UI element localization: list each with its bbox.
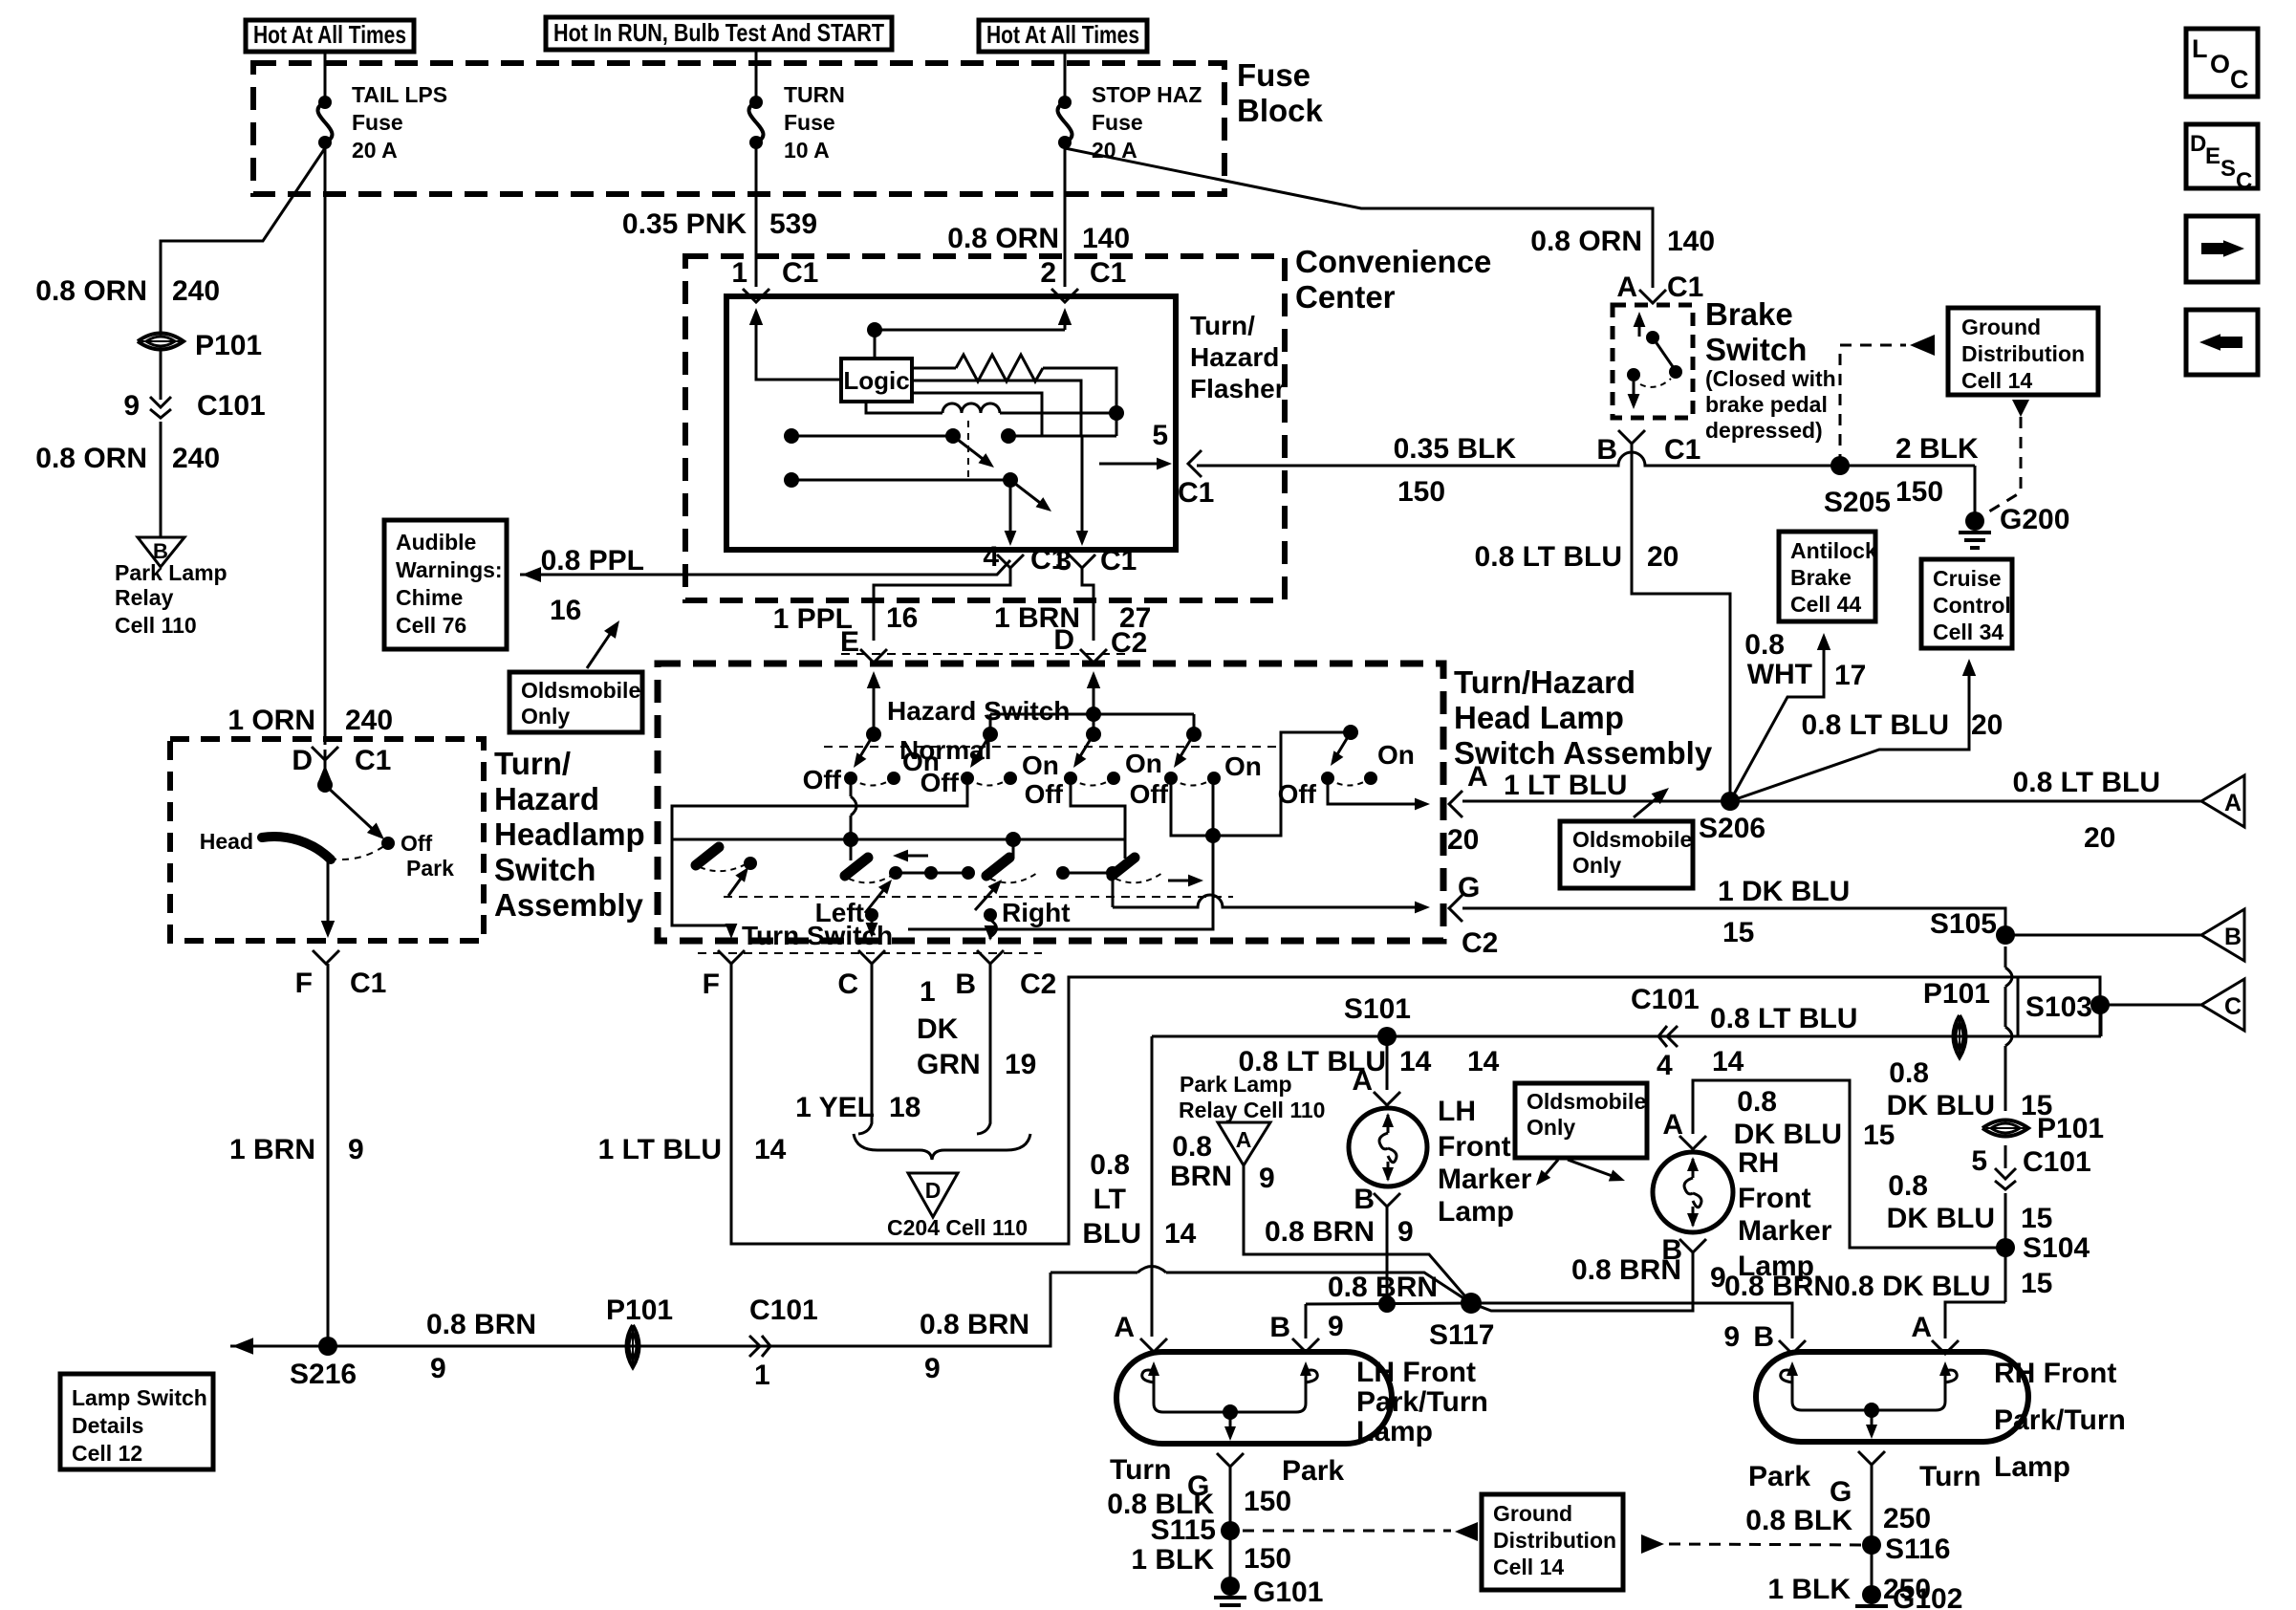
turn switch thin arrow F: [728, 872, 746, 896]
Turn/Hazard Head Lamp Switch Assembly dashed box: [658, 664, 1443, 941]
svg-text:Off: Off: [401, 831, 433, 856]
wire 0.8 BRN 9 LH marker B down: [1386, 1207, 1389, 1304]
wire into headlamp switch: [324, 750, 327, 785]
wire 0.8 BRN 9 relay to S117: [1244, 1165, 1471, 1303]
svg-text:19: 19: [1005, 1049, 1036, 1080]
svg-text:Turn: Turn: [1919, 1461, 1981, 1492]
svg-text:S: S: [2220, 156, 2236, 182]
svg-text:250: 250: [1883, 1503, 1931, 1534]
wire hazard pole3 Off drop: [1071, 778, 1125, 839]
svg-text:0.8 LT BLU: 0.8 LT BLU: [1802, 709, 1949, 741]
wire 0.8 LT BLU 20 brake switch to S206: [1632, 442, 1730, 801]
svg-text:S216: S216: [290, 1359, 357, 1390]
svg-text:Switch: Switch: [1705, 332, 1807, 367]
dashed reference wire S205 to Ground Distribution: [1840, 345, 1906, 466]
fuse TURN 10A: [755, 101, 757, 103]
connector C101 (right vertical): [1995, 1168, 2016, 1189]
splice S105: [1996, 925, 2015, 945]
svg-text:On: On: [1377, 740, 1415, 770]
svg-text:0.8 LT BLU: 0.8 LT BLU: [1710, 1003, 1857, 1034]
hazard pole 5 Off contact: [1321, 772, 1334, 785]
svg-text:18: 18: [889, 1092, 921, 1123]
svg-text:0.8: 0.8: [1744, 629, 1785, 661]
svg-text:0.8: 0.8: [1172, 1131, 1212, 1163]
svg-text:D: D: [1053, 624, 1074, 656]
svg-text:A: A: [1236, 1127, 1252, 1152]
svg-text:S117: S117: [1429, 1319, 1494, 1351]
svg-text:Switch: Switch: [494, 852, 596, 887]
pin G chevron (switch output): [1449, 895, 1462, 922]
pin D chevron (hazard): [1080, 649, 1107, 663]
hazard pole 3 dashed arc: [1071, 778, 1114, 786]
svg-text:Center: Center: [1295, 279, 1396, 315]
wire Logic bottom to inductor: [866, 402, 942, 413]
svg-text:14: 14: [1399, 1046, 1432, 1077]
svg-text:Lamp: Lamp: [1994, 1451, 2070, 1483]
svg-text:WHT: WHT: [1747, 659, 1812, 690]
svg-text:Chime: Chime: [396, 585, 463, 610]
svg-text:C1: C1: [355, 745, 391, 776]
svg-text:Control: Control: [1933, 593, 2011, 618]
splice S101: [1377, 1027, 1397, 1046]
RH park/turn ground lead: [1871, 1410, 1874, 1429]
turn flag3 dashed arc: [1116, 873, 1162, 882]
hazard pin E internal wire: [873, 685, 876, 734]
svg-text:D: D: [925, 1178, 942, 1203]
headlamp switch Off contact: [381, 837, 395, 850]
svg-text:15: 15: [1863, 1120, 1895, 1151]
svg-text:G102: G102: [1893, 1583, 1962, 1610]
svg-text:4: 4: [1657, 1050, 1673, 1081]
wire to connector B: [2005, 934, 2201, 937]
svg-text:S115: S115: [1151, 1514, 1216, 1546]
svg-text:2 BLK: 2 BLK: [1895, 433, 1979, 465]
pin E chevron: [860, 649, 887, 663]
hop S105 wire over H1: [2005, 968, 2012, 987]
dashed arc to Off/Park: [330, 843, 388, 859]
svg-text:G101: G101: [1253, 1577, 1323, 1608]
svg-text:Park Lamp: Park Lamp: [115, 560, 227, 585]
hazard pin D internal wire: [1093, 685, 1095, 732]
pin 5 chevron: [1188, 450, 1202, 477]
LH marker filament: [1379, 1133, 1397, 1163]
pin B chevron RH park/turn: [1779, 1340, 1806, 1354]
hazard pole 2 arm: [974, 734, 990, 761]
Oldsmobile Only box 2: [1560, 821, 1693, 888]
headlamp switch arm: [325, 785, 379, 835]
wire 0.8 ORN 240 branch from TAIL LPS fuse: [161, 148, 325, 333]
hazard pole 1 On contact: [887, 772, 900, 785]
wire 0.8 PPL 16 to Audible Warnings: [520, 560, 1010, 575]
connector C101 (bottom): [749, 1336, 770, 1357]
triangle connector D to C204: [908, 1173, 958, 1217]
svg-text:3: 3: [1055, 545, 1072, 577]
svg-text:9: 9: [1723, 1321, 1740, 1353]
svg-text:0.8 ORN: 0.8 ORN: [1530, 226, 1642, 257]
svg-text:0.8 BRN: 0.8 BRN: [426, 1309, 536, 1340]
svg-text:Cell 12: Cell 12: [72, 1441, 142, 1466]
svg-text:17: 17: [1834, 660, 1866, 691]
hazard pole 5 arm: [1334, 732, 1351, 759]
svg-text:G: G: [1830, 1476, 1852, 1508]
turn contact row b: [1063, 872, 1113, 875]
svg-text:S101: S101: [1344, 993, 1411, 1025]
wire Left contact to pin C: [871, 915, 874, 927]
svg-text:Brake: Brake: [1790, 565, 1852, 590]
svg-text:C101: C101: [2023, 1146, 2091, 1178]
svg-text:20 A: 20 A: [352, 138, 398, 163]
svg-text:9: 9: [1259, 1163, 1275, 1194]
svg-text:Logic: Logic: [843, 366, 909, 395]
pin B chevron RH marker: [1679, 1239, 1706, 1252]
svg-text:0.8: 0.8: [1889, 1057, 1929, 1089]
inline connector P101 (bottom): [627, 1325, 639, 1367]
svg-text:P101: P101: [1923, 978, 1990, 1010]
flasher pin2 internal wire: [1064, 321, 1067, 330]
svg-text:C1: C1: [1100, 545, 1137, 577]
hazard pole 5 pivot: [1343, 725, 1358, 740]
header box: Hot At All Times (right): [979, 20, 1147, 52]
flasher logic control wire 1: [912, 381, 1081, 436]
LH park/turn ground lead: [1229, 1412, 1232, 1431]
thin dashed connector line C2 top: [841, 653, 1128, 655]
svg-text:G: G: [1458, 872, 1480, 903]
wire from Hot At All Times to TAIL LPS fuse: [324, 52, 327, 102]
svg-text:Park: Park: [1282, 1455, 1344, 1487]
headlamp switch pivot: [317, 777, 333, 793]
svg-text:TAIL LPS: TAIL LPS: [352, 82, 447, 107]
svg-text:Switch Assembly: Switch Assembly: [1454, 735, 1713, 771]
svg-text:Only: Only: [1527, 1115, 1575, 1140]
svg-text:B: B: [2224, 924, 2242, 950]
hazard pole 5 dashed arc: [1328, 778, 1371, 786]
svg-text:RH: RH: [1738, 1147, 1779, 1179]
svg-text:20: 20: [2084, 822, 2115, 854]
turn switch thin arrow 2: [975, 884, 998, 910]
svg-text:F: F: [703, 968, 720, 1000]
svg-text:S103: S103: [2025, 991, 2092, 1023]
svg-text:1 LT BLU: 1 LT BLU: [1504, 770, 1627, 801]
RH park/turn common: [1864, 1403, 1879, 1418]
svg-text:1: 1: [754, 1360, 770, 1391]
pin G chevron RH park/turn: [1858, 1451, 1885, 1465]
arrowhead below Ground Distribution box: [2012, 400, 2029, 417]
turn switch bus: [672, 838, 1125, 841]
splice S115: [1221, 1521, 1240, 1540]
wire 0.35 PNK 539 from TURN fuse to flasher pin 1: [755, 142, 758, 287]
svg-text:A: A: [1662, 1109, 1683, 1141]
brace to C204: [854, 1134, 1030, 1160]
wire hazard pole5 Off to pin A output: [1328, 775, 1417, 804]
svg-text:Cruise: Cruise: [1933, 566, 2002, 591]
flasher wire to pin 4: [1009, 480, 1012, 533]
Cruise Control Cell 34 box: [1921, 559, 2012, 648]
wire 0.35 BLK 150 from flasher pin 5 to S205: [1197, 452, 1975, 466]
svg-text:150: 150: [1895, 476, 1943, 508]
wire to G200: [1974, 466, 1977, 514]
junction P4 On drop: [1205, 828, 1221, 843]
svg-text:B: B: [1354, 1184, 1375, 1215]
svg-text:B: B: [955, 968, 976, 1000]
svg-text:14: 14: [1712, 1046, 1744, 1077]
svg-text:Turn/Hazard: Turn/Hazard: [1454, 664, 1635, 700]
pin F chevron C1: [313, 950, 339, 964]
pin B chevron LH marker: [1374, 1193, 1400, 1207]
RH marker filament wires: [1692, 1159, 1695, 1226]
svg-text:Off: Off: [1025, 779, 1064, 809]
wire node to row 1b: [1116, 413, 1118, 436]
svg-text:140: 140: [1667, 226, 1715, 257]
arrowhead to Ground Distribution: [1910, 335, 1935, 356]
left direction arrow: [901, 855, 928, 858]
wire 1 DK BLU 15 to S105: [1462, 908, 2005, 935]
svg-text:Hot At All Times: Hot At All Times: [253, 20, 406, 49]
svg-text:Front: Front: [1738, 1183, 1811, 1214]
Antilock Brake Cell 44 box: [1779, 532, 1875, 621]
Turn/Hazard Flasher solid box: [726, 296, 1176, 550]
svg-text:0.8: 0.8: [1888, 1170, 1928, 1202]
off-page connector A: [2201, 775, 2244, 827]
svg-text:Antilock: Antilock: [1790, 538, 1877, 563]
svg-text:Cell 44: Cell 44: [1790, 592, 1861, 617]
svg-text:On: On: [1125, 749, 1162, 778]
svg-text:140: 140: [1082, 223, 1130, 254]
svg-text:0.8 BLK: 0.8 BLK: [1745, 1505, 1852, 1536]
svg-text:Cell 34: Cell 34: [1933, 620, 2004, 644]
svg-text:Turn: Turn: [1110, 1454, 1171, 1486]
wire turn switch G output: [1113, 895, 1417, 907]
svg-text:240: 240: [345, 705, 393, 736]
flasher contact row 1b: [1008, 435, 1116, 438]
junction LH marker B: [1378, 1295, 1396, 1313]
svg-text:Only: Only: [1572, 853, 1621, 878]
wire 0.8 LT BLU 14 main horizontal: [1152, 1005, 2101, 1036]
off-page connector B: [2201, 909, 2244, 961]
pin A chevron brake switch: [1639, 290, 1666, 303]
arrowhead Ground Distribution left: [1455, 1522, 1478, 1541]
hazard pole 2 dashed arc: [967, 778, 1010, 786]
svg-text:20: 20: [1447, 824, 1479, 856]
wire 0.8 BRN 9 RH marker B to S117: [1471, 1252, 1693, 1311]
svg-text:S116: S116: [1885, 1534, 1950, 1565]
svg-text:C: C: [2224, 993, 2242, 1020]
svg-text:Cell 14: Cell 14: [1961, 368, 2032, 393]
svg-text:Relay: Relay: [115, 585, 174, 610]
wire 0.8 DK BLU 15 S105 down chain: [1945, 946, 2005, 1338]
wire 0.8 BRN 9 main bottom run: [230, 1273, 1471, 1346]
svg-text:539: 539: [769, 208, 817, 240]
wire 1 BRN 9 from pin F to S216: [327, 964, 330, 1346]
turn switch wiper flag 3: [1112, 858, 1135, 876]
svg-text:C204 Cell 110: C204 Cell 110: [887, 1215, 1028, 1240]
svg-text:0.8 LT BLU: 0.8 LT BLU: [1475, 541, 1622, 573]
svg-text:1 LT BLU: 1 LT BLU: [598, 1134, 722, 1165]
turn switch wiper flag 4: [696, 847, 719, 865]
svg-text:F: F: [295, 968, 313, 999]
icon box DESC: [2186, 124, 2258, 188]
ground G102: [1862, 1585, 1881, 1604]
arrow Oldsmobile Only 1: [587, 627, 615, 668]
svg-text:10 A: 10 A: [784, 138, 830, 163]
svg-text:Fuse: Fuse: [1092, 110, 1143, 135]
hazard pole 5 On contact: [1364, 772, 1377, 785]
splice S116: [1862, 1535, 1881, 1555]
wire from Hot At All Times to STOP HAZ fuse: [1064, 52, 1067, 102]
svg-text:S205: S205: [1824, 487, 1891, 518]
RH front marker lamp bulb: [1653, 1152, 1733, 1232]
wire loop to S103: [2018, 977, 2100, 1036]
stub to turn flag 1: [850, 839, 853, 860]
brake switch contact right: [1669, 365, 1682, 379]
wire P4 On to P5 feed: [1213, 732, 1351, 836]
wire hazard pole2 Off drop: [672, 778, 967, 839]
wire 1 BRN 27 pin3 to hazard switch pin D: [1082, 568, 1094, 641]
svg-text:0.8 ORN: 0.8 ORN: [947, 223, 1059, 254]
pin B chevron LH park/turn: [1292, 1338, 1319, 1352]
svg-text:Cell 14: Cell 14: [1493, 1555, 1564, 1579]
svg-text:9: 9: [924, 1353, 941, 1384]
svg-text:Distribution: Distribution: [1961, 341, 2085, 366]
Ground Distribution Cell 14 box (top): [1948, 308, 2098, 395]
stub to turn flag 2: [1012, 839, 1015, 859]
svg-text:1: 1: [731, 257, 747, 289]
hazard pole 4 Off contact: [1164, 772, 1178, 785]
hazard pole 1 Off contact: [844, 772, 857, 785]
svg-text:20: 20: [1647, 541, 1679, 573]
arrow Oldsmobile Only 3b: [1568, 1160, 1617, 1178]
svg-text:Front: Front: [1438, 1131, 1511, 1163]
pin B chevron: [977, 950, 1004, 964]
flasher switch arm 2: [1010, 480, 1044, 506]
svg-text:Flasher: Flasher: [1190, 374, 1286, 403]
svg-text:A: A: [1616, 272, 1637, 303]
svg-text:Fuse: Fuse: [1237, 57, 1310, 93]
svg-text:Turn/: Turn/: [494, 746, 571, 781]
bus stub P2: [989, 714, 992, 732]
svg-text:Cell 110: Cell 110: [115, 613, 197, 638]
wire inductor to node: [1000, 412, 1116, 415]
wire 0.8 BLK 250 to G102: [1871, 1465, 1874, 1593]
svg-text:Fuse: Fuse: [352, 110, 403, 135]
svg-text:Park/Turn: Park/Turn: [1356, 1386, 1488, 1418]
svg-text:C101: C101: [1631, 984, 1700, 1015]
svg-text:A: A: [1114, 1312, 1135, 1343]
splice S117: [1461, 1293, 1482, 1314]
svg-text:C1: C1: [782, 257, 818, 289]
pin A chevron LH park/turn: [1140, 1338, 1167, 1352]
svg-text:C1: C1: [1667, 272, 1703, 303]
hop bottom run over LH lamp A wire: [1137, 1267, 1166, 1273]
svg-text:S104: S104: [2023, 1232, 2090, 1264]
svg-text:9: 9: [430, 1353, 446, 1384]
svg-text:0.8 BRN0.8 DK BLU: 0.8 BRN0.8 DK BLU: [1724, 1271, 1990, 1302]
fuse TAIL LPS 20A: [324, 101, 326, 103]
brake switch arm: [1653, 337, 1674, 368]
svg-text:1 BLK: 1 BLK: [1767, 1574, 1851, 1605]
arrow Oldsmobile Only 2: [1634, 794, 1662, 817]
wire 0.8 DK BLU 15 to RH front marker lamp A: [1693, 1080, 2005, 1248]
svg-text:A: A: [1352, 1065, 1373, 1097]
svg-text:16: 16: [886, 602, 918, 634]
svg-text:(Closed with: (Closed with: [1705, 366, 1836, 391]
splice S104: [1996, 1238, 2015, 1257]
svg-text:C101: C101: [749, 1295, 818, 1326]
svg-text:Lamp Switch: Lamp Switch: [72, 1385, 207, 1410]
pin G chevron LH park/turn: [1217, 1453, 1244, 1467]
hop S105 wire over H2: [2005, 1027, 2012, 1046]
Audible Warnings Chime Cell 76 box: [384, 520, 507, 649]
hazard pole 4 arm: [1178, 734, 1194, 761]
turn contact row a: [896, 872, 968, 875]
svg-text:C2: C2: [1020, 968, 1056, 1000]
flasher pin 5 wire: [1099, 463, 1164, 466]
flasher switch arm 1: [953, 436, 986, 462]
svg-text:Off: Off: [1130, 779, 1169, 809]
brake switch lower wire: [1633, 381, 1635, 398]
svg-text:Right: Right: [1002, 898, 1071, 927]
hazard pole 2 pivot: [983, 727, 998, 742]
svg-text:DK BLU: DK BLU: [1887, 1203, 1995, 1234]
svg-text:20: 20: [1971, 709, 2003, 741]
svg-text:A: A: [2224, 790, 2242, 816]
pin A chevron LH marker: [1374, 1092, 1400, 1105]
svg-text:15: 15: [2021, 1268, 2052, 1299]
brake switch contact wire: [1638, 321, 1641, 337]
turn Right contact: [984, 908, 997, 922]
pin D chevron: [312, 747, 338, 760]
turn flag2 dashed arc: [990, 873, 1037, 882]
hop Right drop: [990, 920, 997, 937]
connector C101 (H2): [1658, 1026, 1678, 1047]
hop pole1 over cross wire: [851, 796, 856, 816]
svg-text:B: B: [1269, 1312, 1290, 1343]
svg-text:Head Lamp: Head Lamp: [1454, 700, 1624, 735]
turn Left contact: [865, 908, 878, 922]
svg-text:0.8: 0.8: [1737, 1086, 1777, 1118]
svg-text:Details: Details: [72, 1413, 143, 1438]
svg-text:Marker: Marker: [1738, 1215, 1832, 1247]
hazard pole 1 pivot: [866, 727, 881, 742]
wire 1 YEL 18 pin C down: [858, 964, 872, 1134]
svg-text:Park/Turn: Park/Turn: [1994, 1404, 2126, 1436]
svg-text:D: D: [292, 745, 313, 776]
flasher wire to pin 3: [1081, 436, 1084, 533]
svg-text:C: C: [2236, 168, 2252, 194]
wire resistor to node: [1043, 368, 1116, 413]
svg-text:150: 150: [1397, 476, 1445, 508]
svg-text:Lamp: Lamp: [1438, 1196, 1514, 1228]
dashed reference wire Ground Distribution to G200: [1984, 417, 2021, 514]
wire 1 LT BLU 20 / 0.8 LT BLU 20 to connector A: [1462, 800, 2201, 803]
wire S117 to LH lamps: [1306, 1303, 1471, 1304]
wire 0.8 WHT 17 from S206 to Antilock Brake: [1730, 646, 1824, 801]
Convenience Center dashed box: [685, 256, 1285, 600]
svg-text:S105: S105: [1930, 908, 1997, 940]
svg-text:D: D: [2190, 131, 2206, 157]
hazard pole 4 On contact: [1207, 772, 1221, 785]
wire S103 to connector C: [2100, 1004, 2201, 1007]
svg-text:Cell 76: Cell 76: [396, 613, 466, 638]
LH park/turn common: [1223, 1404, 1238, 1420]
triangle connector B to Park Lamp Relay: [138, 537, 184, 567]
svg-text:15: 15: [1722, 917, 1754, 948]
Oldsmobile Only box 1: [509, 672, 642, 732]
hazard pole 3 Off contact: [1064, 772, 1077, 785]
wire from Hot In RUN to TURN fuse: [755, 50, 758, 102]
header box: Hot At All Times (left): [246, 20, 414, 52]
svg-text:Ground: Ground: [1493, 1501, 1572, 1526]
RH front park/turn lamp: [1756, 1352, 2028, 1442]
